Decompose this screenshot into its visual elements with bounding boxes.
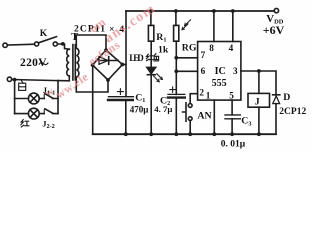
svg-text:4. 7μ: 4. 7μ [154,104,172,114]
label hongse (red colour) glyphs [146,54,158,61]
wire pin 5 to C3 [231,100,233,115]
terminal AC input L [3,43,7,47]
svg-text:5: 5 [229,91,234,101]
junction top rail / pin4 [231,9,235,13]
label 220V with AC tilde [20,57,48,69]
transformer T secondary winding [76,48,79,77]
junction rail / LED line [149,132,153,136]
svg-text:R1: R1 [156,32,166,44]
bridge internal diode [97,57,119,65]
wire to IC pin 6 [176,70,197,72]
switch K [35,37,58,47]
wire lower lamp branch [15,113,58,115]
svg-text:470μ: 470μ [130,105,149,115]
wire secondary top to bridge top corner [76,35,106,50]
lamp white (bai) [28,93,39,104]
transformer T primary winding [67,49,70,76]
svg-text:C3: C3 [241,116,251,128]
junction switch-primary [61,42,65,46]
svg-text:7: 7 [201,50,206,60]
svg-text:1k: 1k [158,45,169,56]
svg-text:J: J [255,97,260,108]
wire upper lamp branch [15,98,58,100]
wire pin 8 to rail [213,11,215,42]
bridge rectifier 2CP11x4 diamond [93,50,123,80]
photoresistor RG light arrows [182,20,191,30]
junction bridge bottom corner [106,78,110,82]
capacitor C1 470u electrolytic [108,97,133,135]
svg-text:8: 8 [209,43,214,53]
watermark www.elecfans.com [43,1,159,101]
resistor R1 [148,11,153,67]
svg-text:0. 01μ: 0. 01μ [221,140,246,150]
LED indicator [147,67,163,81]
wire N input to lamp network [12,80,58,81]
wire button AN to ground rail [189,121,191,135]
label bai (white) glyph [19,81,26,90]
svg-text:RG: RG [182,42,197,53]
svg-text:LED: LED [129,53,144,63]
transformer T core [73,45,75,81]
svg-text:4: 4 [229,43,234,53]
svg-text:6: 6 [201,66,206,76]
lamp red (hong) [28,108,39,119]
svg-text:ecfans: ecfans [86,37,123,68]
label C2 plus sign [170,87,176,92]
wire pin 2 to button AN [190,94,197,103]
wire secondary bottom to bridge bottom corner [76,77,108,92]
svg-text:AN: AN [197,110,211,121]
svg-text:2CP12: 2CP12 [279,107,306,117]
wire bridge right corner to V+ node [122,64,126,66]
svg-text:2: 2 [199,88,204,98]
svg-text:+6V: +6V [263,23,285,37]
wire LED cathode to ground rail [150,75,152,135]
svg-text:K: K [40,29,48,39]
svg-text:J2-2: J2-2 [42,118,55,130]
junction pin3 wire / relay drop [257,69,261,73]
IC 555 box U1 [198,42,241,101]
svg-text:ww.ele: ww.ele [53,69,91,101]
svg-text:C1: C1 [135,92,145,104]
wire L input to switch [7,43,34,46]
wire pin 4 to rail [232,11,234,42]
diode D 2CP12 [273,95,280,134]
top rail VDD [126,10,274,12]
contact J2-2 [44,109,53,114]
wire switch to transformer primary [57,44,69,49]
svg-text:IC: IC [215,66,226,77]
junction bridge top corner [104,48,108,52]
junction N wire / lamp left rail [13,78,17,82]
wire relay drop [258,71,260,93]
wire pin 1 to ground rail [213,100,215,134]
junction rail / C2 [174,132,178,136]
junction top rail / pin8 [212,9,216,13]
wire bridge left corner to ground rail [92,65,94,134]
junction bridge right corner [121,63,125,67]
junction top rail / RG [174,9,178,13]
wire lamp network left rail [14,80,16,114]
junction RG line / pin6 wire [174,69,178,73]
junction rail / relay [257,132,261,136]
junction rail / AN [188,132,192,136]
terminal VDD [274,8,278,12]
label hong (red) glyph [21,120,29,127]
wire V+ riser (top rail left corner down to C1) [125,11,127,97]
svg-text:1: 1 [206,91,211,101]
capacitor C3 [225,115,240,134]
wire lamp network right rail [57,81,59,114]
label 2CP11x4 [74,24,124,35]
label C1 plus sign [118,89,124,95]
junction rail / C1 [124,132,128,136]
junction rail / pin1 [212,132,216,136]
svg-text:D: D [283,92,290,103]
terminal AC input N [7,77,11,81]
wire pin 3 to relay and diode [241,71,276,95]
junction bridge left corner [91,63,95,67]
pushbutton AN [183,103,193,122]
photoresistor RG [174,11,179,94]
junction rail / C3 [230,132,234,136]
svg-text:555: 555 [212,78,227,89]
junction top rail / R1 [149,9,153,13]
contact J1-1 [44,94,53,99]
relay coil J [248,93,270,107]
svg-text:3: 3 [233,66,238,76]
capacitor C2 4.7u electrolytic [168,94,185,134]
wire to IC pin 7 [176,57,197,59]
ground rail (bottom bus) [93,133,276,135]
junction RG line / pin7 wire [174,56,178,60]
wire primary bottom to lamp rail [58,76,69,81]
wire relay to ground rail [258,107,260,134]
